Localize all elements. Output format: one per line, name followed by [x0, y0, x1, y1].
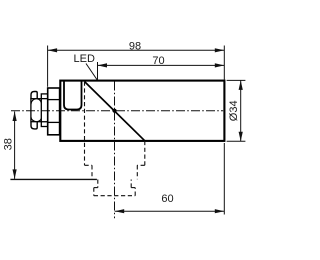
hidden dovetail left edge through body	[85, 82, 93, 180]
dimension 70	[98, 55, 225, 80]
svg-text:LED: LED	[74, 53, 95, 65]
hidden dovetail right edge	[137, 141, 145, 179]
dimension 38	[3, 112, 17, 179]
mounting plate surface line	[10, 178, 97, 180]
svg-text:98: 98	[129, 40, 141, 52]
dimension 60	[115, 143, 225, 215]
connector neck upper band	[41, 94, 47, 99]
connector hex flange	[48, 88, 60, 135]
svg-text:70: 70	[152, 55, 164, 67]
svg-text:Ø34: Ø34	[228, 100, 240, 121]
vertical head axis line	[114, 82, 116, 219]
coupling nut	[31, 92, 41, 129]
junction dot on axis	[113, 109, 117, 113]
horizontal center line	[11, 110, 223, 112]
svg-text:60: 60	[161, 193, 173, 205]
sensor body outline	[60, 81, 224, 141]
LED label and leader	[74, 53, 98, 80]
svg-text:38: 38	[3, 138, 15, 150]
connector neck lower band	[41, 122, 47, 127]
hidden clamp foot below plate	[94, 180, 135, 196]
front insert window (rounded U)	[64, 81, 82, 109]
dimension O34	[227, 80, 246, 141]
diagonal active-face line	[85, 82, 145, 141]
dimension 98	[48, 40, 225, 86]
